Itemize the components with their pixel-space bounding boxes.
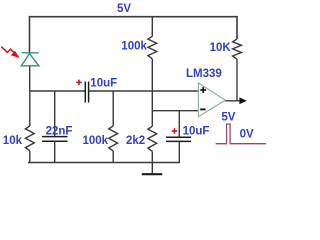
wire: - input node down to 2k2: [151, 111, 153, 127]
svg-text:22nF: 22nF: [46, 126, 73, 138]
C1 polarity + (red): [76, 80, 82, 86]
wire: - input node to comparator: [152, 110, 198, 112]
svg-text:10k: 10k: [3, 135, 23, 147]
svg-text:2k2: 2k2: [126, 135, 145, 147]
wire: 22nF branch from node A: [54, 91, 56, 137]
resistor R1 100k (threshold divider top): [148, 36, 157, 59]
resistor R2 10k: [25, 126, 34, 151]
svg-text:10uF: 10uF: [90, 78, 117, 90]
U1 + input mark: [200, 87, 206, 93]
capacitor C1 10uF coupling (series): [85, 82, 88, 103]
wire: R5 down to output node: [236, 59, 238, 101]
svg-text:0V: 0V: [240, 129, 254, 141]
output wire: [225, 100, 240, 102]
wire: 10k branch down from node A: [29, 91, 31, 126]
output waveform pulse: [216, 124, 266, 144]
svg-text:100k: 100k: [121, 40, 147, 52]
node A horizontal wire (to coupling cap): [30, 90, 85, 92]
wire: 22nF to ground rail: [54, 141, 56, 162]
photodiode D1: [21, 53, 39, 66]
wire: photodiode to node A: [29, 66, 31, 91]
wire: R1 down across + input wire to - input node: [151, 59, 153, 111]
capacitor C3 10uF (threshold smoothing): [166, 137, 191, 141]
light arrow (photodiode illumination): [1, 47, 13, 53]
wire: C1 to comparator + input (crosses 100k/2k2 branch): [89, 90, 199, 92]
wire: 10k to ground rail: [29, 151, 31, 163]
wire: R3 to ground rail: [112, 151, 114, 163]
ground rail (bottom): [28, 162, 180, 164]
threshold divider branch: 5V rail down to 100k: [151, 17, 153, 37]
wire: C3 to ground rail corner: [178, 141, 180, 162]
pull-up branch: resistor R5 10K: [233, 39, 242, 59]
svg-text:5V: 5V: [117, 3, 131, 15]
op-amp U1 LM339: [198, 83, 225, 117]
wire: 2k2 to ground rail: [151, 151, 153, 162]
wire: 100k bias branch down from + input node: [112, 91, 114, 126]
resistor R4 2k2 (threshold divider bottom): [148, 126, 157, 151]
ground stub: [151, 163, 153, 174]
U1 - input mark: [200, 108, 205, 110]
C3 polarity + (red): [172, 128, 178, 134]
output arrowhead: [239, 97, 246, 104]
5V supply rail (top): [30, 17, 238, 53]
svg-text:5V: 5V: [221, 112, 235, 124]
svg-text:10K: 10K: [210, 42, 232, 54]
wire: threshold smoothing cap branch from - input wire: [178, 111, 180, 138]
capacitor C2 22nF: [42, 137, 68, 142]
resistor R3 100k (bias to ground): [109, 126, 118, 151]
ground symbol: [142, 173, 163, 175]
svg-text:LM339: LM339: [186, 68, 222, 80]
svg-text:10uF: 10uF: [183, 126, 210, 138]
svg-text:100k: 100k: [83, 135, 109, 147]
